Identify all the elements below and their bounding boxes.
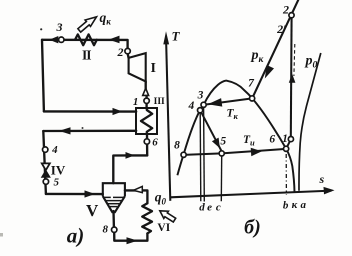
line 1 to 2 <box>290 15 293 139</box>
heat exchanger III box <box>136 108 157 134</box>
svg-text:4: 4 <box>51 144 58 156</box>
node 3 <box>59 37 64 42</box>
node 4 <box>43 147 48 152</box>
isobar p_0 curve <box>299 53 321 191</box>
flow arrow to tank <box>85 190 96 197</box>
T axis <box>166 44 170 201</box>
hollow arrow q_0 <box>160 211 176 222</box>
wire left vertical (3 down) <box>42 40 44 112</box>
svg-text:V: V <box>86 201 99 220</box>
svg-text:q0: q0 <box>155 190 167 207</box>
node 5 <box>43 179 48 184</box>
flow arrow on top wire right <box>109 36 120 44</box>
svg-text:1: 1 <box>282 133 288 145</box>
svg-text:Tи: Tи <box>243 134 255 148</box>
flow arrow bottom wire <box>127 237 138 244</box>
svg-text:4: 4 <box>188 100 195 112</box>
svg-text:IV: IV <box>51 163 66 178</box>
svg-text:Tк: Tк <box>227 108 239 122</box>
dash-dot line 6 to b <box>285 154 287 195</box>
svg-text:T: T <box>172 28 181 43</box>
flow arrow vapor line <box>126 152 135 159</box>
svg-text:c: c <box>216 202 221 214</box>
heat exchanger III zigzag <box>141 108 152 134</box>
compressor I <box>129 53 146 81</box>
node 2 <box>125 48 130 53</box>
svg-text:II: II <box>82 47 91 62</box>
condenser II zigzag <box>75 34 97 45</box>
speck mid left <box>82 127 84 129</box>
arrow on 1-2 <box>289 74 296 83</box>
svg-text:I: I <box>150 61 155 76</box>
throttling line 4 to 5 <box>200 110 221 151</box>
svg-text:a: a <box>300 199 306 211</box>
svg-text:3: 3 <box>197 90 204 102</box>
svg-text:s: s <box>318 172 324 186</box>
isotherm T_i line 8-5-6 <box>184 149 286 155</box>
evaporator VI zigzag <box>142 203 152 233</box>
node 5 diagram <box>219 151 224 156</box>
smudge left edge <box>0 233 3 237</box>
tank V liquid level lines <box>104 197 124 206</box>
arrow on 7-3 <box>208 98 223 107</box>
svg-text:5: 5 <box>220 136 226 148</box>
wire compressor to point 1 <box>145 81 147 88</box>
node 6 <box>144 139 149 144</box>
svg-text:pк: pк <box>251 48 265 65</box>
wire 8 to evaporator VI bottom <box>114 232 147 240</box>
line 6 to 1 <box>286 139 291 149</box>
node 7 <box>250 96 255 101</box>
separator tank V body <box>103 183 125 212</box>
check valve triangle above point 1 <box>143 88 149 95</box>
wire vapor line tank to 6 <box>113 155 147 183</box>
node 1 <box>144 98 149 103</box>
dashed scan line near 1-2 <box>293 44 296 76</box>
svg-text:2: 2 <box>282 3 289 17</box>
wire out of heat exchanger III <box>43 130 136 133</box>
s axis <box>170 191 331 198</box>
svg-text:8: 8 <box>174 140 180 152</box>
wire 2 to compressor I <box>127 54 130 58</box>
svg-text:5: 5 <box>54 177 60 189</box>
svg-text:б): б) <box>244 217 261 239</box>
node 8 diagram <box>181 152 186 157</box>
node 6 diagram <box>284 146 289 151</box>
node 2 diagram <box>289 13 294 18</box>
saturation dome <box>177 81 294 193</box>
arrow on 4-5 <box>212 138 220 149</box>
node circles diagram <box>181 13 294 158</box>
wire into heat exchanger III <box>44 110 136 113</box>
flow arrow out of III <box>59 127 71 134</box>
flow arrow on top wire left <box>49 36 58 43</box>
node circles schematic <box>43 37 150 232</box>
svg-text:qк: qк <box>100 10 112 27</box>
line 7 to 2 extended <box>252 0 299 98</box>
throttle valve IV <box>42 163 50 170</box>
svg-text:к: к <box>292 199 298 211</box>
svg-text:III: III <box>154 97 165 107</box>
svg-text:8: 8 <box>102 224 108 236</box>
svg-text:b: b <box>283 199 289 211</box>
node 1 diagram <box>288 137 293 142</box>
vertical e <box>203 108 206 202</box>
wire tank bottom to 8 <box>112 211 115 227</box>
vertical c <box>220 156 222 201</box>
wire 5 to tank V <box>46 193 103 196</box>
wire top (2 to 3) <box>42 40 128 49</box>
wire 4-5 vertical <box>43 131 46 194</box>
arrow on 2-7 <box>265 65 274 79</box>
isotherm T_k line 7 to 3 <box>206 98 252 104</box>
svg-text:7: 7 <box>248 78 255 90</box>
hollow arrow q_k <box>78 17 97 32</box>
vertical d <box>199 112 202 201</box>
node 3 diagram <box>201 102 206 107</box>
speck top left <box>40 28 42 30</box>
svg-text:6: 6 <box>152 136 158 148</box>
node 8 <box>112 227 117 232</box>
node 4 diagram <box>198 108 203 113</box>
wire III to point 6 <box>146 134 149 155</box>
svg-text:e: e <box>207 202 212 214</box>
svg-text:6: 6 <box>269 134 275 146</box>
svg-text:3: 3 <box>56 20 63 34</box>
flow arrow into III <box>113 108 123 115</box>
wire evaporator VI top to tank <box>125 190 147 203</box>
svg-text:1: 1 <box>133 96 139 108</box>
svg-text:p0: p0 <box>305 54 318 71</box>
wire point 1 to III <box>145 96 147 109</box>
svg-text:VI: VI <box>157 222 170 234</box>
svg-text:а): а) <box>67 224 85 248</box>
svg-text:d: d <box>199 202 205 214</box>
svg-text:2′: 2′ <box>276 22 286 36</box>
hollow arrow into tank from VI <box>134 186 143 192</box>
arrow on 5-6 <box>251 148 262 156</box>
svg-text:2: 2 <box>117 45 124 59</box>
